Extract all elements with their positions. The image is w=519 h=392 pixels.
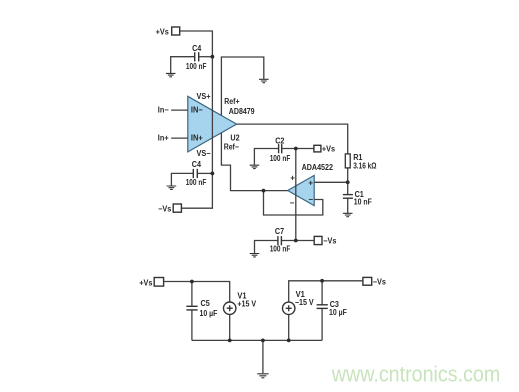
svg-text:+Vs: +Vs	[322, 145, 336, 154]
capacitor C7 value label	[270, 227, 291, 253]
node junction center ground / common	[261, 339, 265, 343]
node junction ADA4522 output / Ref-	[262, 189, 266, 193]
svg-text:100 nF: 100 nF	[186, 62, 207, 71]
svg-text:C2: C2	[275, 137, 285, 146]
resistor R1 value label	[353, 153, 377, 170]
svg-text:www.cntronics.com: www.cntronics.com	[331, 362, 500, 387]
voltage source V1 +15V value label	[237, 291, 256, 308]
terminal -Vs bottom	[363, 277, 386, 286]
wire +Vs top to VS+ rail	[180, 31, 213, 173]
capacitor C4 top value label	[186, 44, 207, 71]
node junction C5 / +Vs rail	[190, 280, 194, 284]
svg-text:10 µF: 10 µF	[329, 308, 347, 317]
svg-text:100 nF: 100 nF	[186, 178, 207, 187]
svg-text:−Vs: −Vs	[373, 278, 387, 287]
node junction V1 +15V / common	[228, 339, 232, 343]
node junction C4 bottom / VS-	[211, 172, 215, 176]
svg-text:−15 V: −15 V	[295, 298, 314, 307]
wire U2 output to R1	[237, 124, 348, 154]
svg-text:ADA4522: ADA4522	[302, 163, 334, 172]
svg-text:+15 V: +15 V	[237, 300, 256, 309]
wire ADA4522 supply rail	[295, 149, 297, 241]
capacitor C4 bottom	[193, 169, 197, 178]
wire center ground stub	[262, 340, 264, 373]
wire C5 branch top	[191, 282, 193, 307]
wire V1 +15V bottom	[229, 314, 231, 340]
capacitor C3 value label	[329, 300, 347, 317]
terminal +Vs bottom	[139, 278, 163, 288]
ground for C4 bottom	[167, 186, 177, 189]
wire Ref+ to ground	[221, 57, 263, 115]
node junction C2 / +Vs supply	[294, 147, 298, 151]
capacitor C1	[343, 195, 353, 199]
capacitor C5 value label	[200, 299, 218, 318]
terminal +Vs top	[156, 27, 180, 36]
svg-text:+Vs: +Vs	[156, 27, 170, 36]
capacitor C1 value label	[354, 190, 372, 207]
ground bottom center	[257, 374, 268, 378]
wire ADA4522 feedback output to - input	[264, 191, 323, 215]
op-amp U1 ADA4522 triangle	[288, 175, 315, 205]
wire VS- rail to -Vs box	[181, 173, 212, 208]
terminal -Vs left	[158, 204, 181, 213]
wire In+ lead	[171, 137, 188, 139]
wire C4 top right to rail	[199, 56, 213, 58]
capacitor C4 top	[195, 52, 199, 61]
svg-text:Ref−: Ref−	[224, 142, 239, 151]
svg-text:10 µF: 10 µF	[200, 309, 218, 318]
capacitor C7	[278, 236, 282, 245]
wire C4 bottom left to ground	[171, 173, 193, 185]
svg-text:C4: C4	[192, 160, 202, 169]
svg-text:+: +	[308, 178, 313, 187]
voltage source V1 -15V	[283, 302, 295, 314]
svg-text:−: −	[290, 199, 295, 208]
svg-text:+: +	[290, 174, 295, 183]
svg-text:100 nF: 100 nF	[270, 245, 291, 254]
voltage source V1 +15V	[224, 302, 236, 314]
resistor R1	[345, 154, 350, 168]
op-amp U2 AD8479 triangle	[188, 96, 237, 152]
node A junction R1 / C1 / + input	[346, 180, 350, 184]
svg-text:C5: C5	[201, 299, 211, 308]
ground for C7	[250, 254, 260, 257]
wire node A to ADA4522 + input	[314, 181, 348, 183]
node junction V1 -15V / common	[287, 339, 291, 343]
voltage source V1 -15V value label	[295, 290, 314, 307]
capacitor C2	[279, 144, 282, 153]
svg-text:AD8479: AD8479	[229, 107, 255, 116]
svg-text:In+: In+	[158, 134, 169, 143]
svg-text:100 nF: 100 nF	[270, 154, 291, 163]
wire C3 branch top	[321, 281, 323, 305]
capacitor C3	[317, 305, 328, 309]
terminal +Vs mid	[314, 145, 336, 154]
wire V1 -15V bottom	[288, 315, 290, 341]
svg-text:C4: C4	[192, 44, 202, 53]
svg-text:In−: In−	[158, 106, 169, 115]
svg-text:−: −	[308, 195, 313, 204]
ground for C1	[343, 213, 353, 216]
svg-text:IN+: IN+	[191, 134, 203, 143]
wire C2 to ground	[254, 149, 278, 165]
svg-text:VS−: VS−	[197, 149, 211, 158]
wire +Vs bottom rail	[164, 282, 230, 303]
ground for Ref+	[259, 79, 269, 82]
node junction C3 / -Vs rail	[320, 279, 324, 283]
capacitor C2 value label	[270, 137, 291, 163]
wire node A to C1	[347, 182, 349, 194]
wire V1 -15V top rail to -Vs	[289, 281, 363, 302]
wire C4 top left to ground	[171, 57, 195, 73]
wire In- lead	[171, 109, 188, 111]
svg-text:3.16 kΩ: 3.16 kΩ	[353, 161, 377, 170]
node junction C4 top / VS+	[211, 55, 215, 59]
wire C1 to ground	[347, 198, 349, 213]
wire C5 branch bottom	[191, 310, 193, 341]
svg-text:C7: C7	[275, 227, 285, 236]
svg-text:10 nF: 10 nF	[354, 198, 372, 207]
svg-text:IN−: IN−	[191, 106, 203, 115]
svg-text:VS+: VS+	[197, 92, 211, 101]
svg-text:Ref+: Ref+	[224, 97, 239, 106]
ground for C4 top	[166, 73, 176, 76]
node junction C7 / -Vs supply	[294, 239, 298, 243]
wire C4 bottom right to rail	[197, 172, 212, 174]
svg-text:U2: U2	[230, 134, 240, 143]
wire Ref- to A1 output node	[221, 133, 287, 191]
svg-text:+Vs: +Vs	[139, 279, 153, 288]
terminal -Vs mid	[314, 236, 337, 245]
capacitor C5	[186, 306, 197, 310]
capacitor C4 bottom value label	[186, 160, 207, 187]
svg-text:−Vs: −Vs	[323, 237, 337, 246]
wire C7 node to -Vs box	[281, 240, 314, 242]
wire C3 branch bottom	[321, 308, 323, 340]
wire C7 to ground	[255, 241, 278, 254]
wire R1 to node A	[347, 168, 349, 182]
svg-text:−Vs: −Vs	[158, 204, 172, 213]
wire C2 node to +Vs box	[282, 148, 314, 150]
wire bottom common rail	[192, 339, 322, 341]
ground for C2	[250, 165, 260, 168]
